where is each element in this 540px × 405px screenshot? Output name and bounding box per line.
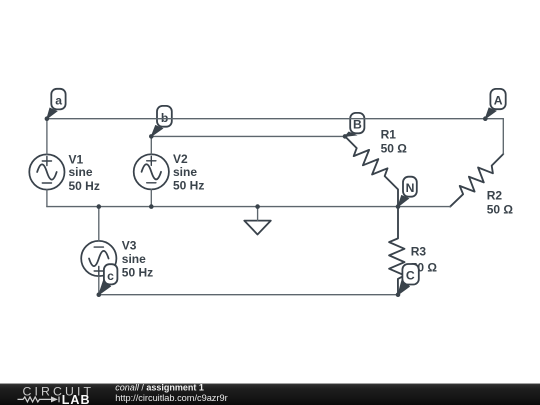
svg-text:R3: R3: [411, 245, 427, 259]
logo diode triangle: [51, 396, 58, 402]
resistor R2: [450, 154, 503, 207]
svg-text:sine: sine: [122, 252, 146, 266]
svg-text:A: A: [494, 93, 503, 107]
node flag c: [99, 264, 118, 295]
ground stub wire: [257, 207, 259, 221]
wire net a top horizontal: [47, 118, 503, 120]
junction node c: [97, 292, 102, 297]
svg-text:50 Ω: 50 Ω: [487, 202, 514, 216]
wire V3 bottom lead: [98, 276, 100, 295]
wire V2 bottom lead: [150, 189, 152, 206]
node flag B: [345, 113, 364, 136]
svg-text:b: b: [161, 111, 168, 125]
node flag C: [398, 264, 419, 295]
svg-text:sine: sine: [173, 165, 197, 179]
junction node A: [483, 116, 488, 121]
wire net A right vertical drop: [502, 119, 504, 154]
junction node B: [343, 134, 348, 139]
svg-text:N: N: [406, 181, 415, 195]
wire V2 top lead: [150, 136, 152, 154]
resistor R3: [389, 207, 404, 295]
node flag a: [47, 89, 66, 119]
node flag b: [151, 106, 172, 136]
svg-text:C: C: [406, 268, 415, 282]
svg-text:a: a: [55, 94, 62, 108]
wire net b second horizontal: [151, 135, 345, 137]
node flag A: [485, 89, 505, 119]
svg-text:B: B: [353, 118, 362, 132]
junction node a: [45, 116, 50, 121]
svg-text:conall / assignment 1: conall / assignment 1: [115, 383, 204, 393]
logo waveform: [18, 397, 60, 403]
voltage source V1: [29, 154, 64, 189]
footer bar: [0, 384, 540, 405]
svg-text:LAB: LAB: [62, 393, 91, 405]
svg-text:sine: sine: [69, 165, 93, 179]
node flag N: [398, 177, 417, 207]
ground: [244, 221, 270, 235]
svg-text:http://circuitlab.com/c9azr9r: http://circuitlab.com/c9azr9r: [115, 393, 227, 403]
junction V2 bottom: [149, 204, 154, 209]
svg-text:R2: R2: [487, 189, 503, 203]
resistor R1: [345, 136, 398, 206]
svg-text:50 Ω: 50 Ω: [381, 142, 408, 156]
svg-text:V3: V3: [122, 238, 137, 252]
svg-text:R1: R1: [381, 127, 397, 141]
wire V1 bottom lead: [46, 190, 48, 207]
wire V3 top lead: [98, 207, 100, 241]
voltage source V2: [134, 154, 169, 189]
wire V1 top lead: [46, 119, 48, 155]
svg-text:50 Hz: 50 Hz: [173, 179, 204, 193]
junction ground: [255, 204, 260, 209]
svg-text:50 Hz: 50 Hz: [69, 179, 100, 193]
voltage source V3: [81, 241, 116, 276]
svg-text:c: c: [107, 269, 114, 283]
wire bottom net c: [99, 294, 398, 296]
svg-text:50 Hz: 50 Hz: [122, 265, 153, 279]
wire middle ground bus: [47, 206, 450, 208]
junction V3 top: [97, 204, 102, 209]
junction node C: [396, 292, 401, 297]
junction node b: [149, 134, 154, 139]
junction node N: [396, 204, 401, 209]
